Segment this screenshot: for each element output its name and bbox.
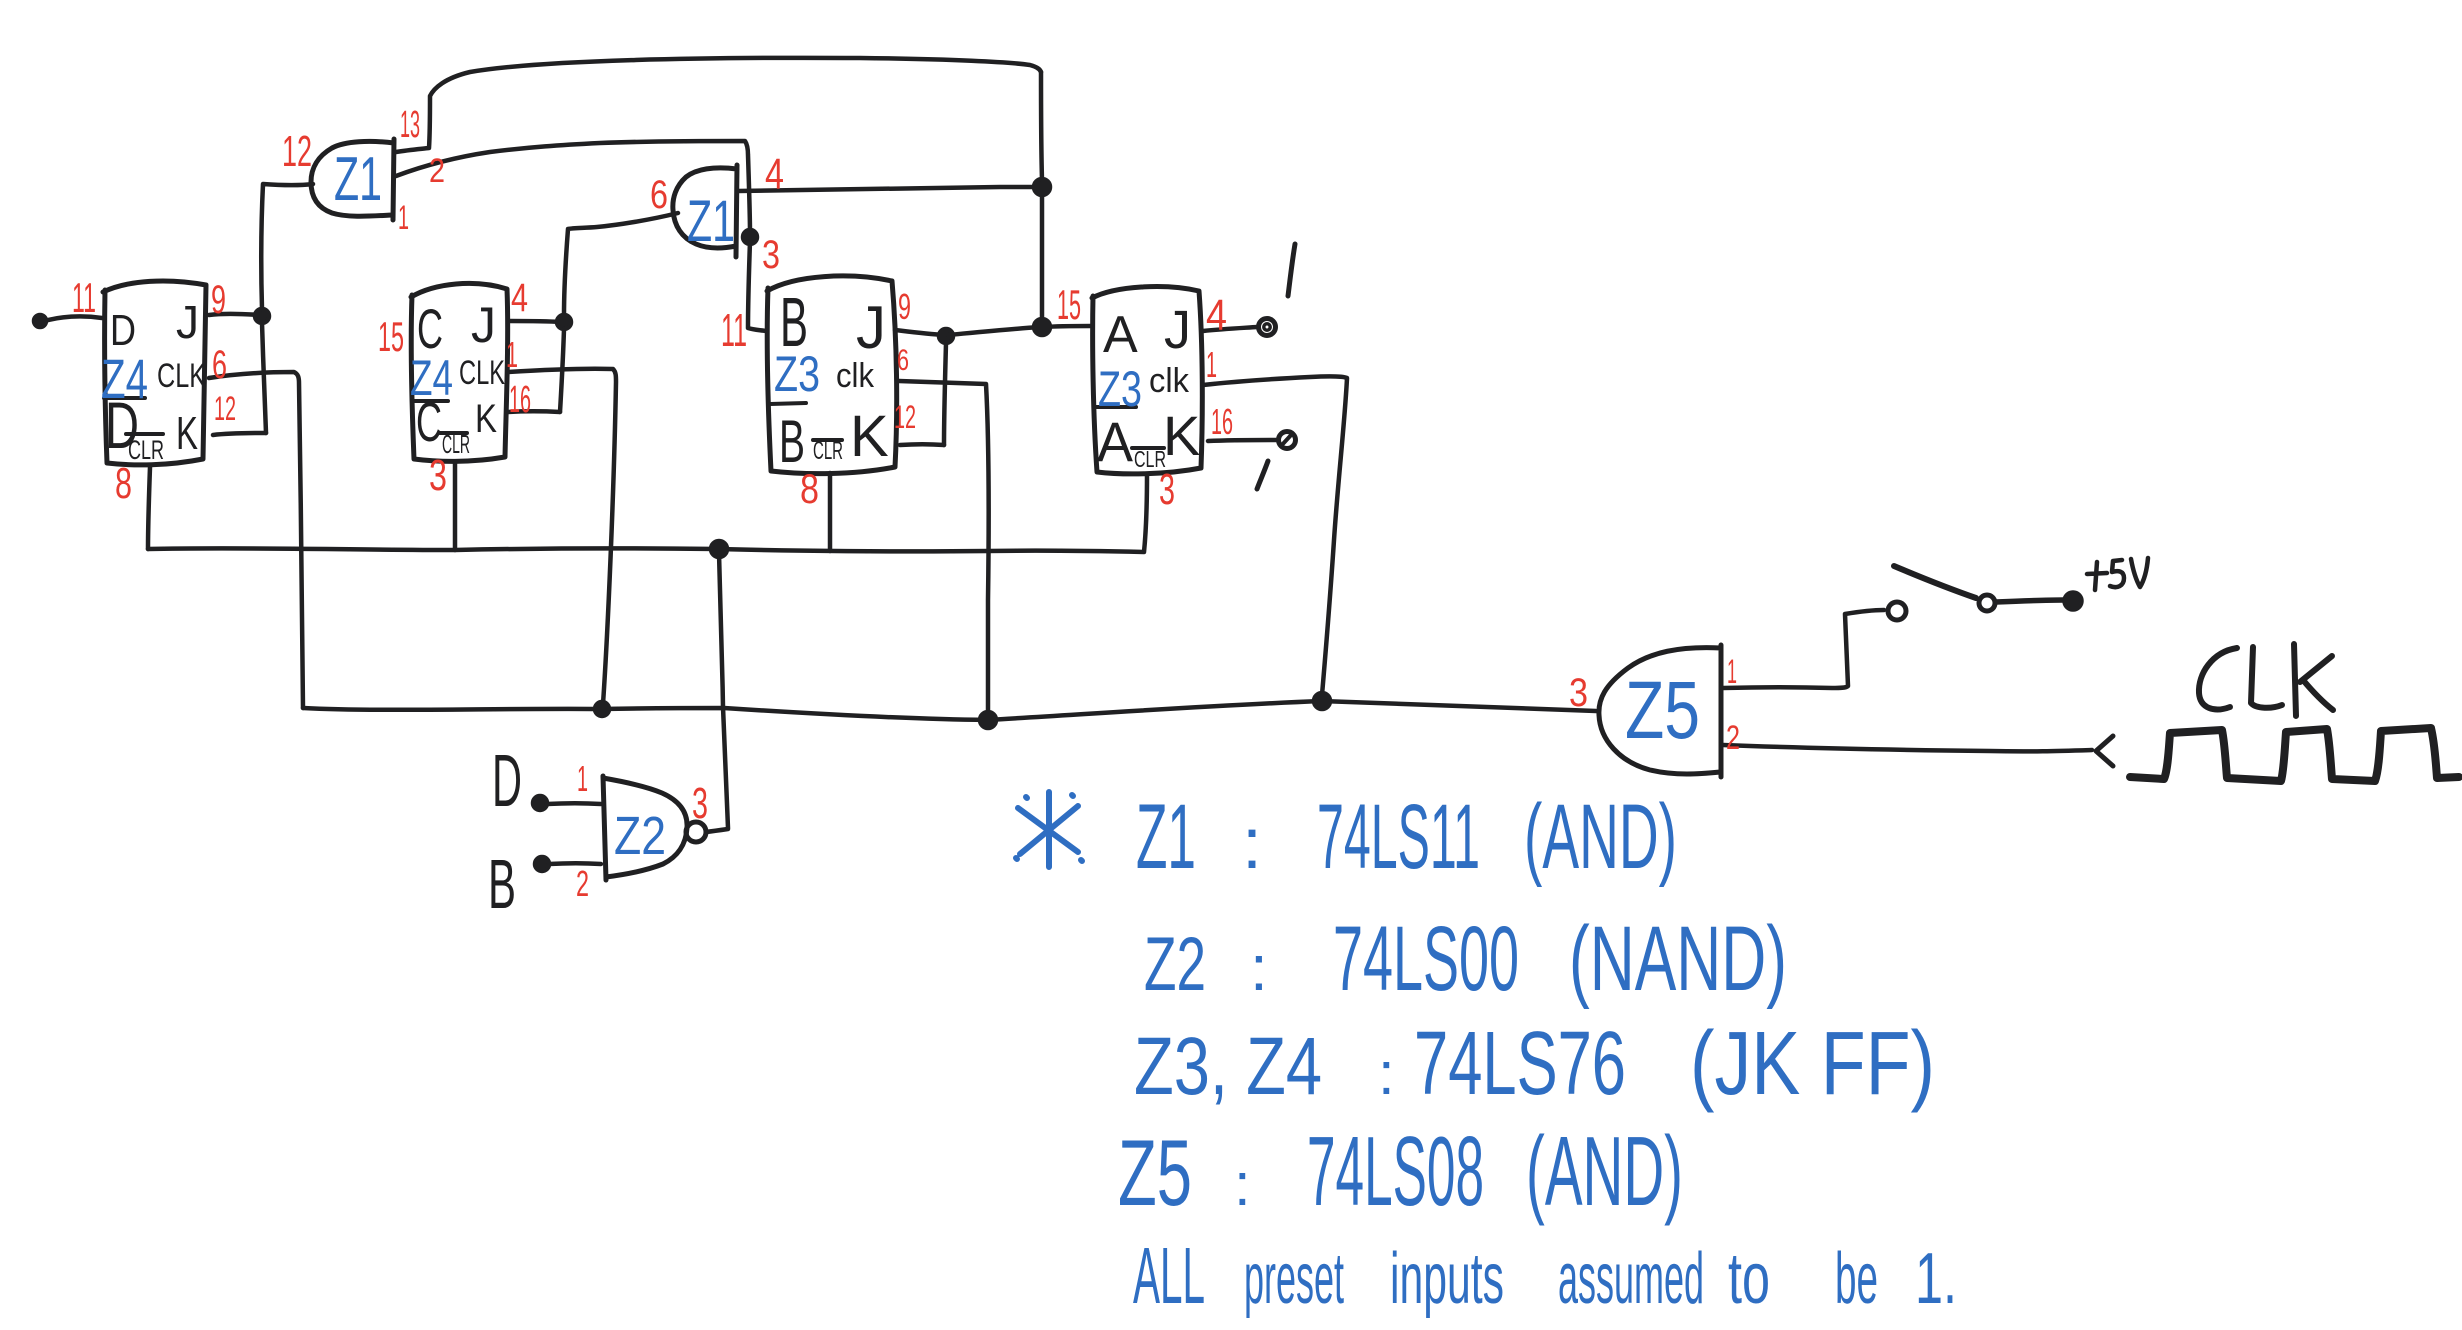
svg-text:3: 3 [1159,465,1175,514]
wire FF2 J-K tie vertical [560,329,564,412]
svg-text:12: 12 [894,399,916,435]
svg-text:J: J [856,294,886,361]
AND gate Z1b body (74LS11) [673,165,737,257]
wire FF3 J-K tie vertical [944,343,946,445]
svg-text:K: K [1163,404,1200,467]
NAND gate Z2 output bubble [686,822,706,842]
svg-text:CLR: CLR [813,437,843,465]
wire top arc from Z1a pin 13 to A feedback [396,58,1041,152]
FF4 Abar overbar [1094,405,1136,409]
svg-text:Z2: Z2 [614,806,666,866]
svg-text:15: 15 [1057,281,1081,328]
svg-text:2: 2 [576,863,589,904]
wire Z2 input D (pin 1) [547,801,601,806]
wire Z5 pin 2 run to CLK source [1723,745,2092,751]
wire clock bus from FF1 leg to Z5 output (pin 3) [303,701,1596,720]
node Z1b pin 3 tap on B feedback vertical [743,230,757,244]
svg-text:CLK: CLK [459,354,505,392]
AND gate Z1a body (74LS11) [311,139,394,220]
svg-text:CLK: CLK [157,357,206,395]
wire FF1 J input (pin 9) to node [209,314,260,315]
FF3 CLR overbar [813,438,842,442]
svg-text:K: K [475,397,497,441]
wire FF1 J-K tie vertical [262,323,266,433]
node Z2 input B terminal [535,857,549,871]
node FF4 Q feedback junction lower [1034,319,1050,335]
svg-text:2: 2 [1726,719,1740,757]
svg-text:16: 16 [509,379,531,421]
node A feedback junction at Z1b pin 4 [1034,179,1050,195]
wire FF4 Q output stub (pin 15, A) [1045,326,1091,327]
wire Z2 bubble to output riser [706,829,728,832]
wire CLR bus to FF4 CLR (pin 3) [148,474,1147,552]
svg-text:A: A [1097,410,1134,473]
svg-text:D: D [492,739,522,822]
node CLR bus junction at Z2 output leg [711,541,727,557]
FF2 CLR overbar [440,431,467,435]
svg-text:3: 3 [692,779,708,828]
wire Z1 gate-a output (pin 12) run to FF1 J [261,184,313,309]
wire FF2 K input (pin 16) [507,409,560,414]
wire FF1 K input (pin 12) [213,433,266,435]
svg-text:Z5: Z5 [1625,665,1700,756]
svg-text:B: B [488,845,516,923]
node J2/K2 junction [557,315,571,329]
switch SW1 lever [1894,566,1976,598]
flip-flop FF2 box (Z4, C) [411,283,508,461]
svg-text:12: 12 [282,127,312,176]
svg-text:3: 3 [762,233,780,277]
svg-text:8: 8 [800,465,819,512]
wire FF1 CLK (pin 6) run down to clock bus [209,372,303,708]
svg-text:8: 8 [115,459,132,508]
svg-text:1: 1 [1727,653,1737,691]
hand-drawn CLK letter L [2251,647,2282,708]
wire A feedback vertical [1040,194,1045,320]
wire Z2 output (pin 3) vertical to CLR bus [719,553,728,828]
svg-text:6: 6 [212,343,227,387]
svg-text:3: 3 [429,451,447,500]
svg-text:4: 4 [765,150,784,199]
wire FF2 CLR (pin 3) drop [453,462,458,550]
svg-text:Z4: Z4 [410,350,453,406]
svg-text:12: 12 [214,390,236,428]
wire A feedback vertical upper [1041,72,1042,180]
hand-drawn CLK letter K [2294,644,2333,716]
svg-text:CLR: CLR [128,435,164,465]
wire FF1 CLR (pin 8) drop [148,467,150,549]
node clock bus junction at FF3 CLK leg [980,712,996,728]
wire FF3 J node to FF4 Q node [948,327,1040,335]
AND gate Z5 body (74LS08) [1599,645,1721,777]
FF4 CLR overbar [1132,446,1164,450]
wire Z2 input B (pin 2) [549,861,601,866]
node Z2 input D terminal [533,796,547,810]
wire FF3 CLK (pin 6) run down to clock bus [899,381,989,714]
svg-text:clk: clk [836,357,875,395]
node +5V terminal [2065,593,2082,610]
wire FF1 Q output stub (pin 11, D) [41,316,102,322]
node J1/K1 junction [255,309,269,323]
flip-flop FF4 box (Z3, A) [1092,287,1202,474]
svg-text:Z3, Z4:74LS76(JK FF): Z3, Z4:74LS76(JK FF) [1134,1014,1935,1114]
wire Z5 pin 1 run to switch [1723,610,1884,688]
wire FF4 CLK (pin 1) run down to clock bus [1203,376,1347,695]
FF2 Cbar overbar [413,399,448,403]
wire Z1a pin 2 run to B feedback vertical [396,141,750,234]
wire FF2 CLK (pin 1) run down to clock bus [508,369,616,704]
svg-text:2: 2 [429,152,445,190]
CLK square waveform [2130,728,2459,781]
wire FF3 K input (pin 12) [900,442,944,447]
svg-text:3: 3 [1569,671,1588,715]
svg-text:Z3: Z3 [774,346,820,402]
svg-text:clk: clk [1149,362,1190,400]
svg-text:11: 11 [72,274,96,321]
wire switch to +5V terminal [1996,600,2064,602]
wire FF4 K (pin 16) stub to logic-1 [1208,440,1277,441]
svg-text:1: 1 [506,334,518,375]
FF1 Dbar overbar [104,396,145,400]
svg-text:Z1: Z1 [687,189,735,254]
svg-text:6: 6 [897,344,909,377]
svg-text:4: 4 [1206,291,1227,340]
svg-text:13: 13 [400,104,420,146]
svg-text:11: 11 [721,304,747,356]
wire FF3 J input (pin 9) to node [895,330,944,335]
svg-text:1: 1 [1206,344,1217,385]
wire FF3 CLR (pin 8) drop [828,473,833,551]
node FF1 Q stub terminal blob [34,315,46,327]
node clock bus junction at FF2 CLK leg [595,702,609,716]
node CLK source arrowhead [2096,736,2113,766]
hand-drawn CLK letter C [2199,648,2237,709]
value label 1 at FF4 K [1257,461,1268,489]
node FF4 K logic-1 terminal curl [1279,432,1296,449]
svg-text:K: K [176,407,198,459]
svg-text:1: 1 [398,199,409,237]
wire Z1b pin 4 input run [738,187,1040,191]
switch SW1 left contact [1888,602,1906,620]
svg-text:15: 15 [378,313,404,360]
svg-text:K: K [850,404,889,469]
flip-flop FF3 box (Z3, B) [767,276,897,474]
svg-text:4: 4 [511,276,528,320]
value label 1 at FF4 J [1288,244,1295,296]
svg-text:16: 16 [1211,401,1233,442]
svg-text:9: 9 [898,286,911,327]
flip-flop FF1 box (Z4, D) [103,281,206,465]
wire FF4 J (pin 4) stub to logic-1 [1203,327,1257,331]
svg-text:A: A [1103,306,1138,364]
svg-text:Z4: Z4 [101,347,148,410]
FF1 CLR overbar [126,432,163,436]
wire B feedback vertical lower to FF3 Q (pin 11) [748,241,766,331]
svg-text:J: J [176,296,199,348]
node clock bus junction at FF4 CLK leg [1314,693,1330,709]
svg-text:9: 9 [211,278,226,322]
FF3 Bbar overbar [770,403,806,404]
svg-text:Z3: Z3 [1098,361,1142,417]
node J3/K3 junction [939,329,953,343]
svg-text:J: J [1164,300,1191,360]
svg-text:1: 1 [577,758,588,799]
svg-text:Z1: Z1 [334,145,382,214]
svg-text:J: J [471,297,496,353]
svg-text:6: 6 [650,173,668,217]
switch SW1 right contact [1979,595,1995,611]
hand-drawn +5V label [2087,558,2148,590]
wire FF2 J input (pin 4) [509,321,561,322]
node FF4 J logic-1 terminal curl [1259,319,1276,336]
wire Z1 gate-b output (pin 6) run to FF2 J [564,213,678,315]
NAND gate Z2 body (74LS00) [603,776,687,880]
legend asterisk [1016,792,1082,867]
